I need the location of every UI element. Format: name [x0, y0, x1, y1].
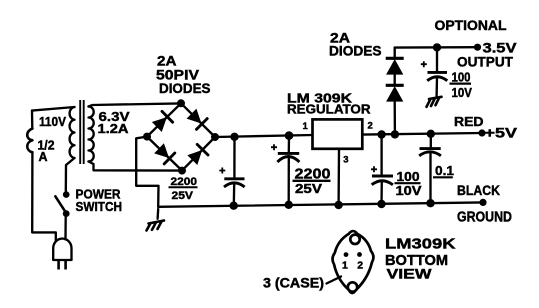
ground (main) [147, 209, 165, 231]
node C2 top [285, 131, 294, 140]
svg-text:REGULATOR: REGULATOR [287, 102, 371, 117]
svg-text:100: 100 [452, 70, 471, 85]
node bridge top [177, 99, 185, 107]
svg-text:+5V: +5V [485, 125, 518, 141]
bridge rectifier edges [147, 103, 215, 170]
svg-text:0.1: 0.1 [435, 163, 454, 178]
svg-text:1.2A: 1.2A [98, 121, 130, 136]
transformer T1 primary winding [70, 107, 75, 158]
svg-text:25V: 25V [172, 190, 194, 202]
capacitor C2 2200/25V [271, 136, 299, 205]
node C4 bottom [426, 199, 434, 207]
wire diode top to optional rail [394, 48, 396, 59]
wire ground rail [158, 202, 483, 206]
svg-text:DIODES: DIODES [329, 44, 382, 59]
svg-text:LM309K: LM309K [385, 236, 456, 253]
svg-text:OPTIONAL: OPTIONAL [435, 18, 507, 33]
label 2200 / 25V (C1) [169, 176, 198, 202]
AC plug P1 [53, 239, 71, 270]
diode D3 (bottom-left edge) [155, 144, 175, 164]
wire secondary top to bridge [89, 103, 181, 106]
wire +5V rail [362, 133, 482, 135]
node 3.5V terminal [474, 44, 481, 51]
svg-text:2A: 2A [157, 54, 177, 69]
wire optional 3.5V rail [395, 46, 478, 49]
transformer T1 core [80, 100, 84, 164]
wire diode branch lower [394, 101, 397, 134]
package top mounting hole [350, 235, 359, 244]
svg-text:BLACK: BLACK [457, 182, 500, 198]
svg-text:SWITCH: SWITCH [76, 199, 123, 214]
svg-text:DIODES: DIODES [159, 81, 211, 96]
svg-text:110V: 110V [39, 115, 67, 129]
node diode branch on +5V rail [391, 130, 399, 138]
svg-text:1: 1 [303, 121, 309, 132]
node bridge left [143, 133, 151, 141]
svg-text:3: 3 [343, 155, 348, 166]
label 0.1 [433, 163, 454, 178]
svg-text:OUTPUT: OUTPUT [457, 54, 514, 69]
diode D6 (lower of 2A diodes) [386, 85, 404, 101]
node C2 bottom [285, 201, 293, 209]
transformer T1 secondary winding [89, 107, 94, 162]
svg-text:GROUND: GROUND [457, 210, 512, 226]
svg-text:VIEW: VIEW [387, 266, 433, 282]
package bottom mounting hole [348, 282, 357, 291]
regulator U1 LM309K box [313, 119, 363, 148]
wire secondary bottom to bridge bottom [89, 162, 183, 171]
svg-text:A: A [39, 149, 49, 164]
svg-text:2: 2 [357, 260, 363, 272]
node +5V terminal [478, 129, 485, 136]
svg-text:2: 2 [368, 121, 373, 132]
node C1 top [230, 133, 238, 141]
label 100 / 10V (C3) [395, 169, 422, 198]
svg-text:1: 1 [342, 260, 348, 272]
capacitor C5 100/10V optional [421, 47, 448, 96]
node bridge bottom [178, 167, 186, 175]
package pin 2 dot [357, 252, 362, 257]
capacitor C1 2200/25V [219, 137, 244, 206]
svg-text:3.5V: 3.5V [483, 41, 517, 56]
diode D1 (top-left edge) [153, 111, 173, 131]
wire primary left upper [31, 111, 34, 129]
svg-text:3 (CASE): 3 (CASE) [263, 276, 324, 291]
wire pin3 to ground rail [337, 149, 340, 205]
label 100 / 10V (C5) [450, 70, 473, 100]
diode D2 (top-right edge) [188, 110, 208, 130]
node ground terminal [479, 199, 486, 206]
LM309K package bottom view outline [333, 231, 374, 293]
svg-text:RED: RED [454, 115, 484, 129]
capacitor C3 100/10V [371, 135, 393, 205]
capacitor C4 0.1 [419, 134, 441, 203]
package pin 1 dot [344, 252, 349, 257]
label 2200 / 25V (C2) [293, 166, 331, 196]
svg-text:25V: 25V [295, 182, 323, 196]
fuse F1 1/2A [27, 129, 32, 153]
svg-text:100: 100 [397, 169, 420, 184]
node C3 bottom [377, 200, 385, 208]
node C4 top [427, 130, 435, 138]
power switch S1 [55, 191, 69, 217]
diode D5 (upper of 2A diodes) [386, 58, 404, 74]
node C3 top [377, 130, 385, 138]
node pin3/ground rail [334, 201, 342, 209]
ground (optional output) [427, 97, 442, 107]
wire primary left lower [32, 152, 56, 241]
leader line 3 (CASE) [327, 277, 342, 284]
wire switch to plug [64, 217, 67, 240]
wire primary top [32, 107, 75, 111]
svg-text:10V: 10V [452, 85, 473, 100]
svg-text:10V: 10V [396, 183, 422, 198]
wire primary bottom to switch [66, 158, 75, 192]
wire bridge left to ground [136, 137, 158, 207]
wire input rail [215, 135, 313, 137]
node C5 top [433, 43, 441, 51]
node bridge right [211, 133, 219, 141]
wire between diodes [394, 74, 396, 85]
diode D4 (bottom-right edge) [188, 144, 208, 164]
node C1 bottom [230, 202, 238, 210]
